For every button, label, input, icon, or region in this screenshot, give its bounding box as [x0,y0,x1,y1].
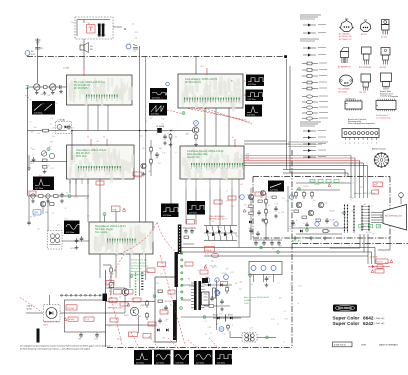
svg-text:Sehen mit gegenuber angeordnet: Sehen mit gegenuber angeordnet [348,122,375,125]
svg-text:4n7: 4n7 [212,267,215,269]
svg-text:L 5: L 5 [336,220,338,222]
wire top of mains box [77,19,110,21]
svg-text:1k: 1k [306,194,308,196]
svg-text:10n: 10n [268,277,271,279]
svg-text:C 34: C 34 [341,213,344,215]
svg-text:0,47: 0,47 [226,200,229,202]
svg-text:68k: 68k [380,216,383,218]
wire left margin vertical [27,87,29,196]
RGB transistor ref blue circles [289,195,293,199]
svg-text:8: 8 [232,168,233,170]
svg-text:BU 126: BU 126 [165,301,171,303]
svg-text:68k: 68k [50,142,53,144]
green capacitor antenna input [25,86,28,89]
svg-text:0,47: 0,47 [219,313,222,315]
wire audio block top [104,216,106,223]
svg-text:0,2V 20ms: 0,2V 20ms [217,362,225,364]
svg-text:4Ω: 4Ω [90,49,93,51]
svg-text:10n: 10n [313,200,316,202]
svg-text:22u: 22u [161,123,164,125]
svg-text:L 5: L 5 [236,236,238,238]
scope trace box IF out 1 [246,75,265,87]
svg-text:ZF 38,9 MHz: ZF 38,9 MHz [74,87,89,90]
svg-text:BD 243: BD 243 [380,67,386,69]
relay coil box [202,292,210,305]
svg-text:Si 660: Si 660 [69,319,74,321]
svg-text:C 34: C 34 [127,43,130,45]
svg-text:5: 5 [146,121,148,123]
svg-text:R 12: R 12 [50,168,53,170]
red label focus assembly [376,259,388,264]
svg-text:C 34: C 34 [155,283,158,285]
svg-text:C 34: C 34 [275,203,278,205]
svg-text:C 34: C 34 [350,211,353,213]
wire trap down [71,131,73,160]
RGB board pin columns dotted [344,204,346,233]
warning triangle board top [328,184,331,187]
wire IF to chroma 1 [204,108,206,146]
svg-text:BF 959: BF 959 [361,34,367,36]
capacitor left audio [28,220,30,222]
transistor case TO-220 drawing 3 [381,20,389,39]
svg-text:68k: 68k [45,212,48,214]
svg-text:DR: DR [34,211,38,215]
svg-text:1n: 1n [316,190,318,192]
scope trace box deflection 5 [215,350,234,365]
svg-text:a: a [349,143,350,145]
red dashed leader mains [20,298,42,313]
fuse Si1 red box [87,25,96,34]
svg-text:C 34: C 34 [50,118,53,120]
ferrite bar 2 [173,300,177,340]
svg-text:0,47: 0,47 [202,284,205,286]
regulator case drawing 9 [380,73,393,98]
trap cap [68,125,70,127]
svg-text:C 34: C 34 [74,197,77,199]
svg-text:Secam Ost: Secam Ost [187,156,200,159]
svg-text:68k: 68k [139,316,142,318]
dashed box mains input module [75,17,113,39]
svg-text:L 5: L 5 [147,301,149,303]
tuner block HF-Vorst 29301-014.01 [67,75,133,106]
svg-text:C 34: C 34 [173,136,176,138]
svg-text:+12: +12 [160,98,163,100]
mains transformer Tr1 [98,24,101,37]
svg-text:L 0309: L 0309 [63,68,70,70]
transistor T21 [192,127,198,133]
wires tuner bottom pins down [87,105,89,131]
svg-text:11: 11 [103,137,106,139]
switching transistor [122,289,129,296]
svg-text:a: a [367,143,368,145]
svg-text:L 5: L 5 [193,295,195,297]
svg-text:TBA: TBA [112,208,116,211]
red dashed leaders to deflection scopes [131,332,140,350]
svg-text:BU 126: BU 126 [360,92,366,94]
svg-text:BC238: BC238 [222,273,227,275]
svg-text:L 5: L 5 [52,244,54,246]
svg-text:7: 7 [101,100,102,102]
choke row components [31,193,64,199]
red label mixer [29,191,36,195]
line output module box [155,277,177,342]
svg-text:a: a [376,143,377,145]
green dots scattered convergence [260,246,263,249]
wire chroma to right verticals [244,140,287,142]
svg-text:BC238: BC238 [366,232,371,234]
legend symbol list [300,15,328,159]
switch symbol at phone jack [133,44,138,49]
scope trace box IF in upper [150,88,167,100]
red label thermistor [66,305,77,310]
wire RGB red line 2 [244,160,360,162]
svg-text:3n3: 3n3 [47,95,50,97]
svg-text:0,2V 20ms: 0,2V 20ms [156,362,164,364]
svg-text:1k: 1k [278,213,280,215]
svg-text:22u: 22u [282,198,285,200]
svg-text:+285 V: +285 V [140,305,147,307]
svg-text:68k: 68k [31,132,34,134]
svg-text:3n3: 3n3 [65,87,68,89]
svg-text:0,1: 0,1 [226,190,228,192]
transistor case drawing 6 [380,48,390,70]
svg-text:4 846 755 90: 4 846 755 90 [334,345,347,347]
svg-text:4: 4 [222,168,223,170]
delay line pin strip black bar [178,225,182,255]
wire speaker to transformer [83,39,85,45]
svg-text:2M5: 2M5 [78,339,81,341]
line output transformer [188,279,205,311]
svg-text:R 12: R 12 [162,153,165,155]
wire standby vertical [216,280,218,330]
svg-text:100: 100 [30,163,33,165]
svg-text:9: 9 [99,171,100,173]
wire IF top stub [195,57,197,75]
convergence bus wires [178,247,375,249]
capacitor under scope audio [76,238,78,240]
transistor case TO-92 drawing 2 [360,20,371,36]
svg-text:2k2: 2k2 [248,228,251,230]
svg-text:4n7: 4n7 [137,279,140,281]
svg-text:0,2V 20ms: 0,2V 20ms [35,188,43,190]
svg-text:0,47: 0,47 [172,337,175,339]
svg-text:68k: 68k [279,246,282,248]
coil L32 [49,153,54,158]
svg-text:2k2: 2k2 [133,51,136,53]
ground left rail [28,155,30,168]
svg-text:10n: 10n [34,127,37,129]
svg-text:BD 202: BD 202 [381,36,387,38]
svg-text:68k: 68k [244,205,247,207]
svg-text:C 34: C 34 [245,195,248,197]
svg-text:2k2: 2k2 [37,229,40,231]
transistor case drawing 8 [360,74,371,94]
svg-text:10n: 10n [326,218,329,220]
svg-text:68k: 68k [162,337,165,339]
svg-text:22u: 22u [341,182,344,184]
red label RGB focus [373,182,383,187]
capacitor C4 [59,85,61,89]
svg-text:Super Color: Super Color [333,316,360,321]
blue ref M mains [219,327,224,332]
wire luma line 2 [244,165,368,167]
svg-text:0,1: 0,1 [268,205,270,207]
svg-text:0,1: 0,1 [283,311,285,313]
ground under T21 [195,143,197,145]
wire isolation transformer right [257,336,276,338]
wires RGB board down [359,234,361,248]
svg-text:2k2: 2k2 [156,158,159,160]
svg-text:3: 3 [196,168,197,170]
svg-text:L 5: L 5 [52,213,54,215]
scope trace box tuner AGC [32,101,55,115]
svg-text:7: 7 [94,171,95,173]
svg-text:2k2: 2k2 [142,148,145,150]
wires video block down to mixer [69,179,71,193]
svg-text:0,1: 0,1 [64,125,66,127]
svg-text:23/80: 23/80 [361,344,367,346]
bottom rail components [64,300,105,341]
wire video IF line [27,130,67,132]
svg-text:R 12: R 12 [161,118,164,120]
svg-text:10n: 10n [37,133,40,135]
title Super Color 6642 [333,316,385,321]
svg-text:C 34: C 34 [271,319,274,321]
blue ref above IF scope box [166,82,170,86]
wire mains in [26,312,43,314]
svg-text:a: a [363,143,364,145]
svg-text:1k: 1k [296,220,298,222]
svg-text:BC 238/BC 251: BC 238/BC 251 [339,39,352,41]
svg-text:470: 470 [226,269,229,271]
wire RGB blue line [244,155,351,157]
resistor mains cluster [227,324,229,331]
title Super Color 6242 [333,321,385,326]
svg-text:MADE IN GERMANY: MADE IN GERMANY [379,343,399,346]
svg-text:T 2,5: T 2,5 [85,319,89,321]
svg-text:1n: 1n [246,207,248,209]
red label delay [187,220,195,225]
red label focus 2 [375,269,384,273]
svg-text:BF 869/BF 871: BF 869/BF 871 [338,66,351,68]
components under video IF line [164,134,166,136]
svg-text:100: 100 [160,274,163,276]
svg-text:100: 100 [279,298,282,300]
wire mains top rail [64,299,105,301]
wire IF to chroma 3 [228,108,230,146]
svg-text:1n: 1n [297,303,299,305]
red component RGB spark gaps [372,190,379,194]
svg-text:22u: 22u [239,288,242,290]
anode cap circle [399,193,404,198]
svg-text:a: a [124,27,126,31]
svg-text:Netz-Trenntr. 29701-054.01: Netz-Trenntr. 29701-054.01 [244,296,270,299]
svg-text:BC238: BC238 [314,184,319,186]
svg-text:0,2V 20ms: 0,2V 20ms [152,97,160,99]
wire jack down [139,46,141,57]
svg-text:R 12: R 12 [65,219,68,221]
mains rectifier circle [46,308,57,319]
wire antenna row [28,86,67,88]
warning triangles scattered [127,303,130,306]
svg-text:0,2V 20ms: 0,2V 20ms [151,113,159,115]
CRT base pin column [361,205,369,231]
svg-text:Super Color: Super Color [333,321,360,326]
scope trace box chroma out 1 [161,204,180,218]
svg-text:4n7: 4n7 [207,251,210,253]
capacitor audio in [81,236,83,238]
svg-text:10n: 10n [260,197,263,199]
wire aux bus into board [283,169,345,171]
red focus divider symbols [368,263,390,269]
svg-text:BC238: BC238 [70,248,75,250]
coil L31 [41,151,46,156]
svg-text:10n: 10n [69,220,72,222]
speaker LS1 [80,45,84,50]
svg-text:0,2V 20ms: 0,2V 20ms [176,362,184,364]
svg-text:3n3: 3n3 [286,201,289,203]
resistor R31 [43,159,48,162]
svg-text:0,1: 0,1 [302,223,304,225]
IC DIP package drawing left [345,98,362,111]
svg-text:1n: 1n [109,307,111,309]
horizontal drive transistor [130,307,138,315]
svg-text:nur bei originalen: nur bei originalen [131,262,146,264]
svg-text:a: a [345,143,346,145]
svg-text:GRUNDIG: GRUNDIG [338,306,352,310]
svg-text:BILDROHR A66-140X: BILDROHR A66-140X [385,215,403,218]
svg-text:0,1: 0,1 [167,133,169,135]
wire jack line down to video area [139,57,141,131]
Grundig logo [333,305,357,312]
wire standby feed left [103,264,111,266]
svg-text:22u: 22u [272,248,275,250]
svg-text:2k2: 2k2 [173,301,176,303]
svg-text:R 12: R 12 [350,198,353,200]
svg-text:1k: 1k [197,270,199,272]
svg-text:Abst.-Anz.: Abst.-Anz. [292,239,302,242]
svg-text:a: a [358,143,359,145]
svg-text:Die angegebenen Spannungswerte: Die angegebenen Spannungswerte wurden mi… [20,344,111,347]
pin stubs video block bottom [69,179,71,184]
svg-text:Einstell und n.Typ: Einstell und n.Typ [131,259,148,262]
svg-text:100: 100 [55,103,58,105]
svg-text:oben Ansicht: oben Ansicht [345,98,356,101]
svg-text:0,2V 20ms: 0,2V 20ms [66,232,74,234]
svg-text:6242: 6242 [363,321,374,326]
scope trace box deflection 3 [174,350,191,365]
green dot mixer out [68,195,71,198]
svg-text:0,1: 0,1 [50,124,52,126]
svg-text:1k: 1k [156,134,158,136]
wire power rail horizontals [106,287,126,289]
svg-text:C 34: C 34 [59,91,62,93]
svg-text:Ton. Lautst.: Ton. Lautst. [95,231,108,234]
svg-text:R 12: R 12 [292,196,295,198]
terminal dot row module bottom [60,294,102,296]
svg-text:TH 2105: TH 2105 [67,308,74,310]
svg-text:22u: 22u [235,283,238,285]
svg-text:C 34: C 34 [110,274,113,276]
svg-text:0,47: 0,47 [289,226,292,228]
svg-text:+12: +12 [96,141,99,143]
red dashed leader IF scope [167,110,182,114]
svg-text:2k2: 2k2 [150,117,153,119]
svg-text:0,1: 0,1 [29,121,31,123]
transistor case drawing 5 [359,47,371,69]
chassis border dash-dot top [27,56,285,58]
red pin stub IF top [206,68,208,75]
svg-text:1k: 1k [371,206,373,208]
svg-text:R 12: R 12 [288,229,291,231]
svg-text:a: a [371,143,372,145]
chassis border dash-dot right horizontal [292,243,408,245]
capacitor C31 [33,157,35,159]
svg-text:L 5: L 5 [208,268,210,270]
junction dots video line [139,130,141,132]
svg-text:C 34: C 34 [208,327,211,329]
wire mid vertical x171 [170,134,172,204]
svg-text:2k2: 2k2 [346,222,349,224]
red warning triangle mains [64,318,67,321]
svg-text:0,47: 0,47 [52,128,55,130]
wire mains box left [76,20,78,37]
RGB panel border dash-dot [253,176,390,178]
RGB board components cluster [288,183,351,240]
svg-text:4: 4 [117,100,118,102]
svg-text:10n: 10n [52,136,55,138]
svg-text:0,2V 20ms: 0,2V 20ms [248,84,256,86]
svg-text:BU 208 A/BU: BU 208 A/BU [339,88,351,91]
svg-text:P: P [195,122,197,125]
svg-text:BC238: BC238 [303,186,308,188]
components right of delay strip [183,228,196,244]
wire audio label down [115,212,117,223]
wire audio row [62,240,89,242]
svg-text:BY127: BY127 [228,315,233,317]
phone jack blue circle top [126,44,131,49]
wire verticals from IF area down right [286,59,288,170]
svg-text:68k: 68k [159,148,162,150]
svg-text:BC238: BC238 [117,338,122,340]
wire luma line 1 [244,162,364,164]
svg-text:2k2: 2k2 [132,310,135,312]
svg-text:100: 100 [135,38,138,40]
wire mixer down to trap [47,198,49,230]
svg-text:C 34: C 34 [268,196,271,198]
wire verticals into board from CRT wiring [350,177,352,199]
resistor under T21 [195,134,197,142]
wires power area [106,301,155,303]
svg-text:R 12: R 12 [205,254,208,256]
svg-text:1k: 1k [210,332,212,334]
svg-text:4n7: 4n7 [49,146,52,148]
red pin stub tuner top [83,70,85,76]
svg-text:1n: 1n [58,125,60,127]
svg-text:nur Original-Teile: nur Original-Teile [376,117,390,120]
svg-text:3n3: 3n3 [376,183,379,185]
svg-text:0,47: 0,47 [293,225,296,227]
CRT neck lines [371,212,383,214]
svg-text:4n7: 4n7 [39,175,42,177]
svg-text:(-2x00 -00): (-2x00 -00) [375,318,385,320]
mains diodes cluster [213,317,241,319]
svg-text:BC238: BC238 [55,241,60,243]
svg-text:3n3: 3n3 [158,163,161,165]
red dashed module boundaries power [108,283,122,345]
svg-text:Bu: Bu [231,81,233,83]
svg-text:C 34: C 34 [226,287,229,289]
